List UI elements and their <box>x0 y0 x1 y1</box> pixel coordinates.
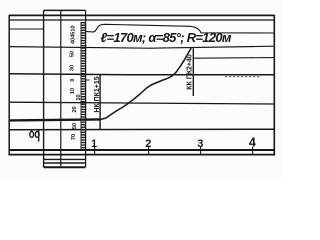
svg-text:50: 50 <box>70 51 76 57</box>
right border <box>273 15 275 156</box>
bottom border inner <box>9 154 275 156</box>
svg-text:20: 20 <box>72 106 78 112</box>
staff graduation strip verticals <box>80 22 82 149</box>
row line 5 <box>9 128 275 131</box>
svg-text:40: 40 <box>71 38 77 44</box>
row line with label bubble <box>9 28 44 30</box>
svg-text:10: 10 <box>76 94 82 100</box>
left border <box>8 15 10 156</box>
staff column left vertical <box>43 10 45 167</box>
staff column bottom double lines <box>44 158 86 160</box>
annotation glyph 0 <box>30 132 34 138</box>
staff column inner vertical <box>60 10 62 167</box>
profile curve rising <box>100 48 191 119</box>
svg-text:ℓ=170м; α=85°; R=120м: ℓ=170м; α=85°; R=120м <box>101 30 232 45</box>
profile flat segment <box>9 119 100 120</box>
axis tick 3 <box>200 147 202 155</box>
bottom border outer <box>9 149 275 151</box>
svg-text:45: 45 <box>71 32 77 38</box>
staff column right vertical <box>85 10 87 167</box>
svg-text:1: 1 <box>91 138 97 150</box>
row line right of KK marker <box>193 57 274 60</box>
axis tick 2 <box>148 147 150 155</box>
annotation glyph 9 with tail <box>35 132 39 138</box>
svg-text:30: 30 <box>70 65 76 71</box>
staff column top <box>44 9 86 11</box>
axis tick 1 <box>94 147 96 155</box>
node NK marker line <box>99 75 101 130</box>
svg-text:3: 3 <box>197 138 203 150</box>
axis numbers <box>91 136 256 151</box>
top border outer line <box>9 14 275 16</box>
svg-text:КК ПК2+40: КК ПК2+40 <box>187 54 194 90</box>
profile dashed continuation <box>225 76 260 78</box>
staff numbers (rotated) <box>70 25 83 140</box>
top border inner line <box>9 19 275 21</box>
svg-text:2: 2 <box>145 138 151 150</box>
svg-text:0: 0 <box>70 78 76 81</box>
node KK marker line <box>192 48 194 96</box>
staff zero tick <box>86 79 90 81</box>
svg-text:10: 10 <box>71 25 77 31</box>
svg-text:4: 4 <box>249 136 256 150</box>
svg-text:70: 70 <box>71 134 77 140</box>
svg-text:50: 50 <box>72 123 78 129</box>
svg-text:НК ПК1+15: НК ПК1+15 <box>94 76 101 112</box>
row line 2 <box>9 46 275 48</box>
axis tick 4 <box>252 147 254 155</box>
label bubble top line <box>85 24 274 33</box>
row line 4 <box>9 102 275 104</box>
row line 3 <box>9 74 275 75</box>
staff comb rungs <box>81 22 86 149</box>
svg-text:10: 10 <box>70 88 76 94</box>
